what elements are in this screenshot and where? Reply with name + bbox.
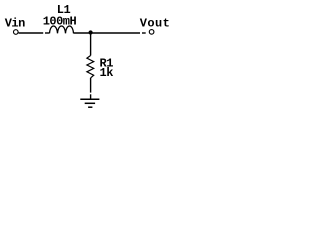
junction dot node A: [89, 30, 93, 34]
wire stub at Vout terminal: [142, 32, 146, 34]
wire Vin to L1: [19, 32, 44, 34]
wire stub at L1 left lead: [45, 32, 49, 34]
node Vin terminal circle: [14, 30, 19, 35]
wire R1 to ground: [90, 78, 92, 93]
resistor R1: [87, 56, 94, 78]
inductor L1: [50, 26, 74, 33]
svg-text:1k: 1k: [100, 66, 114, 80]
node Vout terminal circle: [149, 30, 154, 35]
svg-text:Vout: Vout: [140, 17, 170, 31]
wire stub at ground lead: [90, 94, 92, 99]
wire L1 to node A: [74, 32, 141, 34]
svg-text:Vin: Vin: [5, 17, 25, 31]
svg-text:100mH: 100mH: [43, 14, 77, 28]
wire node A down to R1: [90, 33, 92, 56]
ground: [80, 99, 99, 107]
